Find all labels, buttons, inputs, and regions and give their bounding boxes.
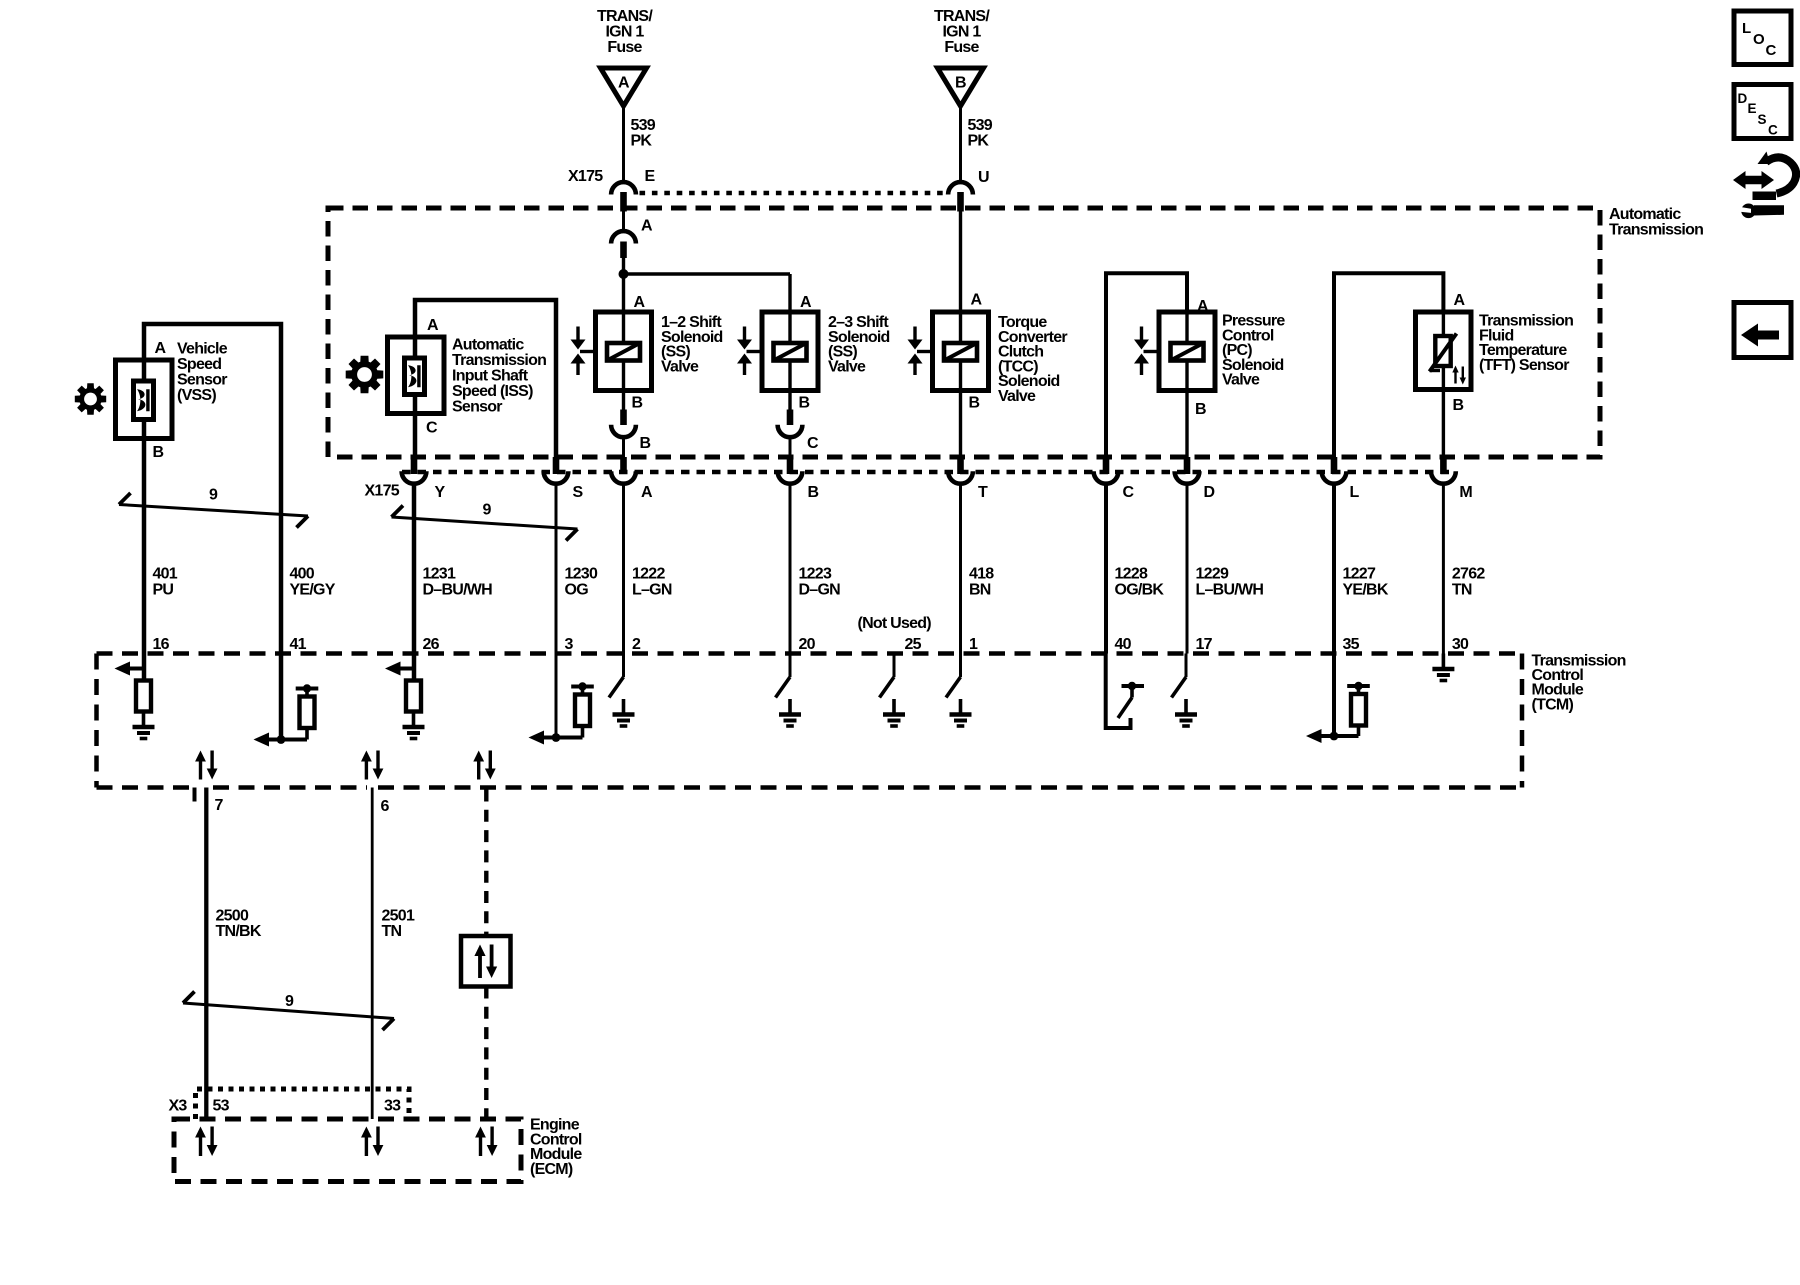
serial data arrows box [461,936,511,987]
wire 2762 TFT pin B to X175 [1442,390,1445,458]
connector X175 pin S [544,457,584,501]
TCM pin 17 driver: switch to ground [1172,654,1198,727]
wire 418 BN [959,483,962,653]
svg-text:OG/BK: OG/BK [1115,582,1165,599]
connector X175 pin D [1175,457,1215,501]
TCM pin 25 driver: switch to ground (not used) [880,654,906,727]
svg-text:53: 53 [213,1098,230,1115]
TCM pin 30: ground [1432,654,1454,681]
svg-text:7: 7 [215,797,224,814]
label 1231 D–BU/WH / pin 26 [423,566,493,654]
svg-text:16: 16 [153,636,170,653]
label pin 33 [384,1098,401,1115]
connector X175 pin C [1094,457,1135,501]
svg-text:400: 400 [290,566,315,583]
svg-text:B: B [799,395,810,412]
svg-text:C: C [807,435,819,452]
fuse A (TRANS/IGN 1 Fuse) [601,68,647,106]
TCM serial data arrows (pin 7) [195,751,217,780]
svg-text:OG: OG [565,582,589,599]
svg-text:A: A [1454,292,1466,309]
TCM pin 16 input: off-page arrow, resistor, ground [115,654,155,739]
wire 1223 to X175 [789,437,792,457]
svg-text:E: E [1748,101,1757,116]
svg-text:1223: 1223 [799,566,832,583]
svg-text:(ECM): (ECM) [530,1161,573,1178]
label Transmission Fluid Temperature (TFT) Sensor [1479,313,1573,374]
svg-text:6: 6 [381,798,390,815]
svg-text:2: 2 [632,636,641,653]
icon wrench navigation [1733,152,1796,219]
svg-text:TRANS/: TRANS/ [597,8,653,25]
svg-text:3: 3 [565,636,574,653]
label Engine Control Module (ECM) [530,1117,582,1178]
svg-text:Sensor: Sensor [452,399,502,416]
svg-text:O: O [1753,31,1765,48]
svg-text:B: B [153,444,164,461]
gear icon (ISS) [346,356,384,394]
connector X175 pin M [1431,457,1472,501]
svg-text:26: 26 [423,636,440,653]
svg-text:TN: TN [1452,582,1472,599]
svg-text:9: 9 [285,993,294,1010]
TCM pin 7 notch [193,788,197,802]
label (Not Used) pin 25 [858,615,932,653]
wire 1230 OG [555,483,558,653]
label 539 PK (right) [968,117,993,150]
svg-text:Vehicle: Vehicle [177,341,228,358]
connector X175 pin A [611,457,653,501]
svg-text:B: B [969,395,980,412]
TCM pin 41 input: arrow and pull-up resistor [254,654,319,747]
svg-text:(TCM): (TCM) [1532,696,1574,713]
svg-text:Input Shaft: Input Shaft [452,368,529,385]
TCM pin 40 driver: controlled switch [1106,654,1144,729]
label Transmission Control Module (TCM) [1532,653,1626,714]
svg-text:D: D [1738,91,1748,106]
solenoid Torque Converter Clutch (TCC) [908,292,989,412]
svg-text:Speed (ISS): Speed (ISS) [452,383,533,400]
svg-text:30: 30 [1452,636,1469,653]
solenoid 1-2 Shift (SS) Valve [571,294,652,412]
twisted pair marker 9 (ISS wires) [392,502,578,541]
wire fuse A feed into transmission [622,212,625,232]
label 1222 L–GN / pin 2 [632,566,672,654]
svg-text:Automatic: Automatic [452,337,524,354]
svg-text:1: 1 [969,636,978,653]
svg-text:401: 401 [153,566,178,583]
dotted connector line X175 (top) [640,191,945,196]
wire 1229 PC pin B to X175 [1185,389,1188,457]
TCM serial data arrows (pin 6) [361,751,383,780]
svg-text:TRANS/: TRANS/ [934,8,990,25]
svg-text:2762: 2762 [1452,566,1485,583]
wire fuse B feed to TCC solenoid [959,212,962,313]
svg-text:A: A [634,294,646,311]
label Torque Converter Clutch (TCC) Solenoid Valve [998,314,1067,405]
label Pressure Control (PC) Solenoid Valve [1222,313,1285,389]
svg-text:S: S [573,484,584,501]
twisted pair marker 9 (2500/2501) [183,992,394,1031]
TCM pin 20 driver: switch to ground [776,654,802,727]
connector X175 label (top) [568,168,603,185]
wire 1223 D–GN [789,483,792,653]
svg-text:(VSS): (VSS) [177,387,216,404]
svg-text:B: B [955,75,966,92]
svg-text:1222: 1222 [632,566,665,583]
svg-text:(TFT) Sensor: (TFT) Sensor [1479,357,1569,374]
wire branch to 2-3 shift solenoid [624,274,791,312]
svg-text:D–GN: D–GN [799,582,841,599]
svg-text:Automatic: Automatic [1609,206,1681,223]
svg-text:539: 539 [631,117,656,134]
ECM serial data arrows (dashed link) [475,1127,497,1157]
dotted connector line X175 (bottom) [402,470,1456,475]
wire TFT sensor pin A loop (1227) [1334,273,1443,457]
dashed box Automatic Transmission [328,208,1600,457]
connector X175 pin Y [402,457,446,501]
svg-text:35: 35 [1343,636,1360,653]
label 401 PU / pin 16 [153,566,178,654]
svg-text:1229: 1229 [1196,566,1229,583]
label 2762 TN / pin 30 [1452,566,1485,654]
svg-text:B: B [632,395,643,412]
label 539 PK (left) [631,117,656,150]
label 1227 YE/BK / pin 35 [1343,566,1389,654]
wire PC solenoid pin A loop (1228) [1106,273,1187,457]
svg-text:X3: X3 [169,1098,188,1115]
svg-text:9: 9 [209,487,218,504]
svg-text:Transmission: Transmission [452,352,546,369]
wire 2-3 solenoid pin B lead [788,391,791,411]
svg-text:Valve: Valve [1222,372,1260,389]
sensor Transmission Fluid Temperature (TFT) [1416,292,1472,414]
wire 1227 YE/BK [1332,483,1336,653]
svg-text:A: A [641,484,653,501]
svg-text:D–BU/WH: D–BU/WH [423,582,493,599]
svg-text:A: A [1197,298,1209,315]
svg-text:PK: PK [631,133,653,150]
wire 1-2 solenoid pin B lead [622,391,625,411]
svg-text:A: A [427,317,439,334]
wire 1229 L–BU/WH [1186,483,1189,653]
label Vehicle Speed Sensor (VSS) [177,341,228,405]
wire 2500 TN/BK [204,788,208,1120]
svg-text:A: A [971,292,983,309]
label pin 53 [213,1098,230,1115]
svg-text:BN: BN [969,582,991,599]
svg-text:C: C [1768,123,1778,138]
dashed box Transmission Control Module (TCM) [97,654,1523,788]
twisted pair marker 9 (VSS wires) [119,487,308,528]
svg-text:C: C [1123,484,1135,501]
label 2501 TN [382,908,415,941]
junction node [619,269,629,279]
svg-text:U: U [978,169,989,186]
icon LOC [1734,11,1791,65]
svg-text:M: M [1459,484,1472,501]
svg-text:A: A [155,340,167,357]
TCM pin 3 input: arrow and pull-up resistor [529,654,594,745]
sensor Automatic Transmission Input Shaft Speed (ISS) [388,300,557,457]
connector X175 pin E [611,168,655,212]
svg-text:Speed: Speed [177,356,221,373]
wire 539 PK from fuse A [622,106,625,182]
svg-text:539: 539 [968,117,993,134]
svg-text:TN/BK: TN/BK [216,923,262,940]
label 418 BN / pin 1 [969,566,994,654]
label 2500 TN/BK [216,908,262,941]
label Automatic Transmission [1609,206,1703,239]
svg-text:IGN 1: IGN 1 [605,24,644,41]
connector 2-3 solenoid (pin C) [778,410,819,453]
svg-text:L: L [1350,484,1360,501]
svg-text:S: S [1758,112,1767,127]
sensor Vehicle Speed Sensor (VSS) [116,324,282,654]
svg-text:C: C [1766,42,1777,59]
label 400 YE/GY / pin 41 [290,566,336,654]
svg-text:B: B [1453,397,1464,414]
fuse B TRANS/IGN 1 label [934,8,990,56]
svg-text:1228: 1228 [1115,566,1148,583]
solenoid 2-3 Shift (SS) Valve [737,294,818,412]
wire 1222 to X175 [622,437,625,457]
label 1230 OG / pin 3 [565,566,598,654]
connector X175 pin B [778,457,819,501]
svg-text:A: A [618,75,630,92]
svg-text:418: 418 [969,566,994,583]
svg-text:Transmission: Transmission [1609,222,1703,239]
label X175 (bottom connector) [365,483,400,500]
svg-text:B: B [808,484,819,501]
svg-text:X175: X175 [365,483,400,500]
svg-text:C: C [426,420,438,437]
solenoid Pressure Control (PC) [1134,298,1215,418]
wire 418 TCC pin B to X175 [959,391,962,458]
svg-text:9: 9 [483,502,492,519]
label 1-2 Shift Solenoid (SS) Valve [661,314,723,375]
svg-text:Valve: Valve [828,358,866,375]
svg-text:D: D [1204,484,1215,501]
connector X3 (dotted bracket) [196,1089,410,1119]
svg-text:PK: PK [968,133,990,150]
svg-text:TN: TN [382,923,402,940]
svg-text:1231: 1231 [423,566,456,583]
TCM pin 2 driver: switch to ground [609,654,635,727]
label 1229 L–BU/WH / pin 17 [1196,566,1264,654]
dashed serial data link [484,790,488,1120]
svg-text:20: 20 [799,636,816,653]
svg-text:PU: PU [153,582,174,599]
wire 1231 D–BU/WH [412,483,417,653]
wire to 1-2 shift solenoid [622,258,625,312]
ECM serial data arrows (pin 53) [195,1127,217,1157]
fuse B (TRANS/IGN 1 Fuse) [938,68,984,106]
label 1223 D–GN / pin 20 [799,566,841,654]
connector pin A (1-2 solenoid harness) [611,218,653,259]
svg-text:33: 33 [384,1098,401,1115]
svg-text:L: L [1742,20,1751,37]
svg-text:41: 41 [290,636,307,653]
label 2-3 Shift Solenoid (SS) Valve [828,314,890,375]
svg-text:A: A [641,218,653,235]
icon back arrow [1734,303,1791,358]
svg-text:2501: 2501 [382,908,415,925]
svg-text:1227: 1227 [1343,566,1376,583]
svg-text:25: 25 [905,636,922,653]
connector 1-2 solenoid (pin B) [611,410,650,453]
wire 1228 OG/BK [1104,483,1108,653]
wire 539 PK from fuse B [959,106,962,182]
ECM serial data arrows (pin 33) [361,1127,383,1157]
svg-text:Sensor: Sensor [177,372,227,389]
TCM serial data arrows (dashed link) [473,751,495,780]
svg-text:Y: Y [435,484,446,501]
svg-text:L–GN: L–GN [632,582,672,599]
svg-text:(Not Used): (Not Used) [858,615,932,632]
label pin 7 [215,797,224,814]
label X3 [169,1098,188,1115]
svg-text:17: 17 [1196,636,1213,653]
connector X175 pin U [948,169,989,212]
fuse A TRANS/IGN 1 label [597,8,653,56]
wire 2762 TN [1442,483,1445,653]
svg-text:1230: 1230 [565,566,598,583]
connector X175 pin L [1322,457,1360,501]
svg-text:B: B [640,435,651,452]
svg-text:Fuse: Fuse [944,39,979,56]
label 1228 OG/BK / pin 40 [1115,566,1165,654]
gear icon (VSS) [75,383,106,414]
TCM pin 1 driver: switch to ground [946,654,972,727]
dashed box Engine Control Module (ECM) [174,1119,521,1182]
label pin 6 [381,798,390,815]
svg-text:E: E [645,168,656,185]
label Automatic Transmission Input Shaft Speed (ISS) Sensor [452,337,546,416]
svg-text:A: A [800,294,812,311]
TCM pin 26 input: off-page arrow, resistor, ground [385,654,425,739]
svg-text:Valve: Valve [998,388,1036,405]
svg-text:IGN 1: IGN 1 [942,24,981,41]
svg-text:B: B [1195,401,1206,418]
svg-text:Valve: Valve [661,358,699,375]
svg-text:T: T [978,484,988,501]
TCM pin 35 input: arrow and pull-up resistor [1306,654,1370,744]
svg-text:L–BU/WH: L–BU/WH [1196,582,1264,599]
svg-text:Fuse: Fuse [607,39,642,56]
connector X175 pin T [948,457,988,501]
svg-text:X175: X175 [568,168,603,185]
svg-text:YE/BK: YE/BK [1343,582,1389,599]
svg-text:YE/GY: YE/GY [290,582,336,599]
wire 1222 L–GN [622,483,625,653]
svg-text:40: 40 [1115,636,1132,653]
wire 2501 TN [371,788,374,1120]
svg-text:2500: 2500 [216,908,249,925]
icon DESC [1734,85,1791,139]
